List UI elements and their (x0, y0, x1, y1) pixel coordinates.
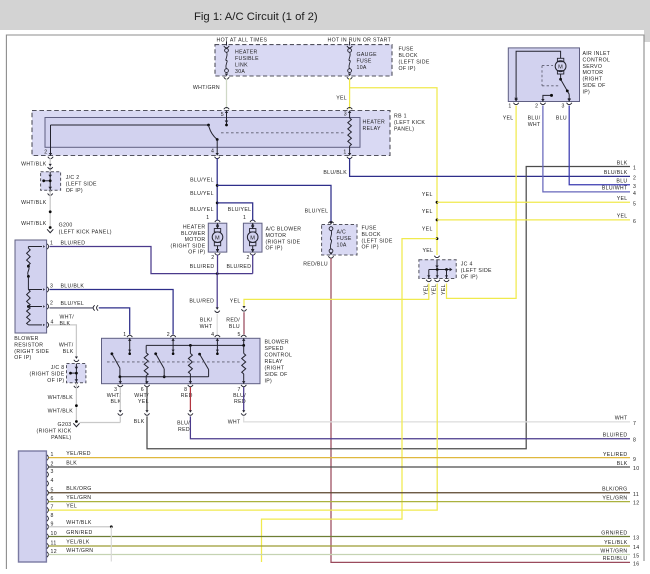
wire BLU (servo pin 3 to connector row 3) (569, 106, 630, 185)
svg-text:WHT/GRN: WHT/GRN (600, 548, 627, 554)
speed relay pin 5 entry to coil bus (242, 338, 245, 341)
svg-text:(LEFT SIDE: (LEFT SIDE (461, 268, 492, 274)
svg-text:BLU/RED: BLU/RED (603, 433, 628, 439)
speed relay pin 1 stub (128, 338, 131, 341)
body connector pin 4 stub (47, 481, 49, 486)
speed relay coil L2 (189, 345, 191, 353)
node WHT/BLK (body connector pin 9 splice) (110, 525, 113, 528)
speed relay switch S1 (111, 352, 114, 355)
wire WHT/BLK (resistor pin 4 to J/C 8) (50, 325, 77, 357)
blower speed control relay U2 box (102, 338, 261, 383)
svg-text:BLU/: BLU/ (528, 116, 541, 122)
body connector pin 2 wire BLK (47, 464, 49, 469)
node BLU/YEL 2 (216, 202, 219, 205)
heater relay pin 2 internal wire (50, 125, 52, 156)
svg-text:YEL/GRN: YEL/GRN (602, 495, 627, 501)
svg-text:WHT/BLK: WHT/BLK (48, 409, 74, 415)
svg-text:WHT/GRN: WHT/GRN (193, 85, 220, 91)
svg-text:11: 11 (633, 492, 639, 498)
svg-text:YEL/GRN: YEL/GRN (66, 495, 91, 501)
svg-text:SPEED: SPEED (265, 346, 284, 352)
junction connector J/C 2 (41, 172, 61, 191)
svg-text:2: 2 (633, 175, 636, 181)
wire WHT/BLK (J/C 2 to ground G200) (49, 190, 52, 192)
svg-text:HEATER: HEATER (235, 50, 258, 56)
svg-text:4: 4 (51, 478, 54, 484)
wire WHT/BLK (splice dropping off page) (110, 527, 112, 562)
svg-text:WHT: WHT (228, 420, 241, 426)
svg-text:(RIGHT SIDE: (RIGHT SIDE (30, 371, 65, 377)
speed relay bottom pins 3 6 8 7 (119, 381, 122, 384)
svg-text:RED: RED (178, 427, 190, 433)
svg-text:RESISTOR: RESISTOR (14, 342, 43, 348)
wire RED to BLU/RED (speed relay pin 8 to connector row 8) (189, 387, 191, 411)
nodes on YEL riser (436, 201, 439, 204)
wire BLU/YEL branch to A/C blower motor (217, 203, 253, 221)
svg-text:BLU/YEL: BLU/YEL (228, 207, 252, 213)
speed relay switch S3 (198, 353, 201, 356)
svg-text:15: 15 (633, 554, 639, 560)
svg-text:(RIGHT: (RIGHT (265, 366, 285, 372)
svg-text:12: 12 (633, 501, 639, 507)
body connector pin 8 stub (47, 516, 49, 521)
servo mechanical link dashes (542, 65, 553, 67)
wire BLK (speed relay pin 6 to connector row 1) (146, 387, 148, 411)
fuse F1 (GAUGE FUSE 10A) (349, 42, 351, 46)
svg-text:7: 7 (51, 505, 54, 511)
wire WHT/GRN (fusible link to heater relay pin 5) (226, 79, 228, 110)
svg-text:1: 1 (123, 332, 126, 338)
svg-text:3: 3 (633, 184, 636, 190)
svg-text:AIR INLET: AIR INLET (583, 51, 611, 57)
svg-text:2: 2 (246, 255, 249, 261)
wire RED/BLU (A/C fuse to connector row 16) (331, 258, 630, 562)
svg-text:WHT/GRN: WHT/GRN (66, 548, 93, 554)
svg-text:1: 1 (50, 240, 53, 246)
wire BLU/YEL (heater relay pin 4 down to blower motors) (216, 158, 218, 221)
body connector pin 12 wire WHT/GRN (47, 552, 49, 557)
node BLU/YEL 1 (216, 184, 219, 187)
svg-text:RELAY: RELAY (265, 359, 283, 365)
svg-text:3: 3 (51, 469, 54, 475)
wire WHT/BLK (speed relay pin 3 to ground line) (119, 387, 121, 411)
relay block RB 1 (dashed box) (32, 111, 390, 156)
svg-text:WHT: WHT (615, 416, 628, 422)
svg-text:YEL: YEL (336, 96, 347, 102)
svg-text:SIDE OF: SIDE OF (265, 372, 288, 378)
svg-text:GRN/RED: GRN/RED (66, 530, 92, 536)
svg-text:YEL: YEL (422, 209, 433, 215)
svg-text:BLK: BLK (134, 419, 145, 425)
svg-text:(LEFT KICK PANEL): (LEFT KICK PANEL) (59, 230, 112, 236)
svg-text:BLU: BLU (556, 116, 567, 122)
speed relay coil L1 (145, 345, 147, 352)
speed relay switch S2 (154, 352, 157, 355)
svg-text:A/C BLOWER: A/C BLOWER (266, 227, 302, 233)
svg-text:5: 5 (237, 332, 240, 338)
svg-text:10A: 10A (337, 242, 347, 248)
servo pins 1 2 3 (514, 99, 517, 102)
wire BLU/RED to WHT (speed relay pin 7 to connector row 7) (243, 387, 245, 411)
wire BLU/WHT (servo pin 2 to connector row 4) (543, 106, 630, 192)
svg-text:SERVO: SERVO (583, 64, 603, 70)
svg-text:YEL: YEL (423, 284, 429, 295)
svg-text:1: 1 (343, 150, 346, 156)
svg-text:FUSIBLE: FUSIBLE (235, 56, 259, 62)
svg-text:4: 4 (211, 149, 214, 155)
svg-text:BLU/YEL: BLU/YEL (305, 209, 329, 215)
wire BLU/RED (A/C blower motor pin 2 drop) (252, 255, 254, 274)
svg-text:WHT/: WHT/ (59, 343, 74, 349)
wire YEL (gauge fuse to heater relay pin 3 and junction riser) (349, 79, 351, 110)
svg-text:1: 1 (206, 215, 209, 221)
heater relay coil (349, 111, 351, 119)
blower resistor element (27, 247, 29, 249)
body connector pin 7 wire YEL (47, 507, 49, 512)
svg-text:RED/BLU: RED/BLU (603, 556, 628, 562)
svg-text:BLOCK: BLOCK (362, 232, 381, 238)
speed relay pin 2 stub (171, 338, 174, 341)
svg-text:10: 10 (633, 466, 639, 472)
fusible link FL (HEATER FUSIBLE LINK 30A) (226, 42, 228, 46)
svg-text:YEL: YEL (230, 299, 241, 305)
svg-text:6: 6 (633, 219, 636, 225)
blower resistor taps (28, 246, 42, 248)
svg-text:M: M (250, 235, 255, 241)
svg-text:2: 2 (211, 255, 214, 261)
wire BLU/RED (resistor pin 1 to blower motors bus) (50, 247, 253, 274)
wire BLU/BLK (resistor pin 3 to speed relay pin 2) (50, 290, 174, 335)
heater relay pin 5 entry (225, 111, 228, 114)
svg-text:(LEFT KICK: (LEFT KICK (394, 120, 425, 126)
svg-text:SIDE OF: SIDE OF (583, 83, 606, 89)
wire BLU/RED to BLK/WHT (bus to speed relay pin 4 via connector) (216, 274, 218, 308)
svg-text:BLK/ORG: BLK/ORG (602, 487, 627, 493)
svg-text:WHT: WHT (200, 324, 213, 330)
svg-text:5: 5 (221, 112, 224, 118)
svg-text:BLU/RED: BLU/RED (189, 299, 214, 305)
blower resistor R1 box (15, 240, 47, 333)
ground G203 (75, 420, 78, 423)
body connector pin 11 wire YEL/BLK (47, 543, 49, 548)
svg-text:YEL/RED: YEL/RED (66, 451, 91, 457)
svg-text:(RIGHT SIDE: (RIGHT SIDE (14, 349, 49, 355)
svg-text:BLU/BLK: BLU/BLK (323, 170, 347, 176)
svg-text:A/C: A/C (337, 230, 347, 236)
svg-text:30A: 30A (235, 69, 245, 75)
svg-text:BLK: BLK (66, 460, 77, 466)
svg-text:LINK: LINK (235, 63, 248, 69)
svg-text:YEL: YEL (423, 248, 434, 254)
splice node on WHT/BLK (49, 210, 52, 213)
svg-text:BLU/: BLU/ (177, 421, 190, 427)
svg-text:16: 16 (633, 561, 639, 567)
svg-text:7: 7 (633, 421, 636, 427)
svg-text:OF IP): OF IP) (461, 274, 478, 280)
svg-text:JC 4: JC 4 (461, 262, 473, 268)
svg-text:3: 3 (344, 112, 347, 118)
svg-text:4: 4 (633, 191, 636, 197)
svg-text:BLK: BLK (60, 321, 71, 327)
svg-text:BLK: BLK (617, 461, 628, 467)
svg-text:BLOWER: BLOWER (14, 336, 38, 342)
svg-text:BLU/WHT: BLU/WHT (602, 186, 628, 192)
wire YEL (node via left drop to bottom left riser) (262, 239, 438, 562)
wire WHT/BLK (heater relay pin 2 to J/C 2) (49, 158, 51, 171)
svg-text:RED/BLU: RED/BLU (303, 262, 328, 268)
svg-text:14: 14 (633, 545, 639, 551)
heater relay U1 (inner box) (45, 118, 360, 148)
svg-text:GRN/RED: GRN/RED (601, 530, 627, 536)
svg-text:13: 13 (633, 536, 639, 542)
svg-text:BLK: BLK (617, 160, 628, 166)
svg-text:GAUGE: GAUGE (357, 52, 378, 58)
svg-text:YEL/BLK: YEL/BLK (66, 539, 90, 545)
wire BLU/YEL (resistor pin 2 via connector to speed relay pin 1) (50, 307, 94, 309)
air inlet control servo motor M3 box (508, 48, 579, 102)
svg-text:WHT/BLK: WHT/BLK (21, 200, 47, 206)
svg-text:1: 1 (508, 103, 511, 109)
svg-text:OF IP): OF IP) (266, 246, 283, 252)
svg-text:CONTROL: CONTROL (583, 57, 611, 63)
svg-text:BLOWER: BLOWER (265, 340, 289, 346)
svg-text:(LEFT SIDE: (LEFT SIDE (66, 182, 97, 188)
svg-text:BLK/ORG: BLK/ORG (66, 486, 91, 492)
svg-text:CONTROL: CONTROL (265, 353, 293, 359)
svg-text:RELAY: RELAY (363, 126, 381, 132)
svg-text:FUSE: FUSE (357, 59, 372, 65)
wire YEL (node to connector row 6) (437, 219, 630, 221)
speed relay pin 4 stub (216, 338, 219, 341)
svg-text:1: 1 (633, 166, 636, 172)
wire WHT/BLK (J/C 8 to ground G203) (75, 383, 78, 385)
junction connector J/C 8 (67, 364, 86, 383)
body connector pin 10 wire GRN/RED (47, 534, 49, 539)
svg-text:M: M (215, 235, 220, 241)
body connector C1 box (19, 451, 47, 562)
svg-text:WHT/BLK: WHT/BLK (48, 395, 74, 401)
wire WHT/BLK (ground line G203 to speed relay pin 3) (80, 422, 121, 424)
svg-text:HOT IN RUN OR START: HOT IN RUN OR START (328, 38, 392, 44)
svg-text:WHT/: WHT/ (60, 314, 75, 320)
svg-text:BLU/YEL: BLU/YEL (190, 191, 214, 197)
fuse F2 (A/C FUSE 10A) block (329, 222, 333, 225)
splice node on WHT/BLK to G203 (75, 404, 78, 407)
svg-text:WHT/BLK: WHT/BLK (66, 520, 92, 526)
wire YEL to RED/BLU (J/C 4 to speed relay pin 5) (244, 284, 429, 307)
wire BLU/RED (heater blower motor pin 2 drop) (217, 255, 219, 274)
svg-text:3: 3 (561, 103, 564, 109)
svg-text:2: 2 (167, 332, 170, 338)
svg-text:YEL: YEL (617, 196, 628, 202)
A/C blower motor M2 (243, 223, 262, 252)
svg-text:BLU/RED: BLU/RED (61, 240, 86, 246)
servo switch arm (motor to pin 3) (560, 74, 562, 79)
svg-text:BLK/: BLK/ (200, 318, 213, 324)
svg-text:BLU/YEL: BLU/YEL (61, 301, 85, 307)
svg-text:(RIGHT SIDE: (RIGHT SIDE (171, 243, 206, 249)
fuse block (top) (215, 45, 392, 76)
speed relay coil L3 (243, 345, 245, 353)
svg-text:OF IP): OF IP) (362, 245, 379, 251)
svg-text:(LEFT SIDE: (LEFT SIDE (362, 238, 393, 244)
svg-text:(LEFT SIDE: (LEFT SIDE (399, 60, 430, 66)
svg-text:BLOWER: BLOWER (181, 231, 205, 237)
svg-text:(RIGHT: (RIGHT (583, 77, 603, 83)
svg-text:YEL: YEL (503, 116, 514, 122)
svg-text:BLU/BLK: BLU/BLK (604, 170, 628, 176)
svg-text:BLU/RED: BLU/RED (227, 264, 252, 270)
wire YEL (JC 4 middle output to body connector pin 7 row) (49, 284, 438, 511)
svg-text:4: 4 (211, 332, 214, 338)
svg-text:2: 2 (50, 300, 53, 306)
svg-text:HEATER: HEATER (363, 120, 386, 126)
svg-text:IP): IP) (583, 89, 591, 95)
svg-text:HOT AT ALL TIMES: HOT AT ALL TIMES (217, 38, 268, 44)
wire YEL (node to connector row 5) (437, 201, 630, 203)
svg-text:Fig 1: A/C Circuit (1 of 2): Fig 1: A/C Circuit (1 of 2) (194, 11, 318, 23)
svg-text:1: 1 (243, 215, 246, 221)
svg-text:HEATER: HEATER (183, 225, 206, 231)
svg-text:BLOCK: BLOCK (399, 53, 418, 59)
svg-text:IP): IP) (265, 379, 273, 385)
body connector pin 3 stub (47, 472, 49, 477)
heater relay switch contact wire (51, 124, 209, 126)
svg-text:5: 5 (633, 201, 636, 207)
svg-text:M: M (558, 64, 563, 70)
svg-text:2: 2 (44, 150, 47, 156)
heater blower motor M1 (208, 223, 227, 252)
svg-text:YEL/BLK: YEL/BLK (604, 540, 628, 546)
body connector pin 6 wire YEL/GRN (47, 499, 49, 504)
svg-text:BLU: BLU (229, 324, 240, 330)
svg-text:OF IP): OF IP) (66, 188, 83, 194)
ground G200 (49, 226, 52, 229)
body connector pin 5 wire BLK/ORG (47, 490, 49, 495)
servo wiper contact (pin 2) (543, 95, 551, 101)
svg-text:OF IP): OF IP) (188, 250, 205, 256)
svg-text:OF IP): OF IP) (399, 66, 416, 72)
heater relay bottom pins 2 4 1 (49, 153, 52, 156)
svg-text:WHT: WHT (528, 122, 541, 128)
svg-text:8: 8 (633, 438, 636, 444)
svg-text:YEL: YEL (617, 214, 628, 220)
svg-text:G200: G200 (59, 223, 73, 229)
node on BLU/RED bus at heater blower motor (216, 272, 219, 275)
header bar (0, 0, 650, 30)
svg-text:J/C 8: J/C 8 (51, 365, 65, 371)
svg-text:J/C 2: J/C 2 (66, 175, 80, 181)
servo motor symbol (516, 51, 561, 98)
heater relay mechanical link (221, 132, 344, 134)
speed relay mechanical link (107, 361, 242, 363)
heater relay switch arm (209, 125, 218, 140)
speed relay coil bus (146, 344, 244, 346)
svg-text:FUSE: FUSE (362, 226, 377, 232)
svg-text:10A: 10A (357, 65, 367, 71)
svg-text:RB 1: RB 1 (394, 114, 407, 120)
svg-text:YEL: YEL (422, 192, 433, 198)
svg-text:9: 9 (633, 457, 636, 463)
svg-text:OF IP): OF IP) (14, 355, 31, 361)
svg-text:2: 2 (535, 103, 538, 109)
svg-text:WHT/: WHT/ (107, 393, 122, 399)
svg-text:MOTOR: MOTOR (583, 70, 604, 76)
svg-text:BLU/BLK: BLU/BLK (61, 283, 85, 289)
svg-text:(RIGHT SIDE: (RIGHT SIDE (266, 239, 301, 245)
wire BLU/YEL branch to A/C fuse (217, 185, 331, 222)
speed relay bottom bus to pin 3 (120, 376, 209, 378)
svg-text:BLU/YEL: BLU/YEL (190, 207, 214, 213)
svg-text:WHT/BLK: WHT/BLK (21, 221, 47, 227)
svg-text:MOTOR: MOTOR (185, 237, 206, 243)
svg-text:BLK: BLK (63, 349, 74, 355)
svg-text:RED/: RED/ (226, 318, 240, 324)
svg-text:YEL: YEL (422, 227, 433, 233)
svg-text:MOTOR: MOTOR (266, 233, 287, 239)
wire YEL (JC 4 right output to air inlet servo pin 1) (447, 106, 517, 299)
svg-text:FUSE: FUSE (399, 47, 414, 53)
svg-text:BLU/YEL: BLU/YEL (190, 178, 214, 184)
wire BLU/BLK (heater relay pin 1 to connector row 2) (350, 158, 630, 176)
svg-text:8: 8 (51, 513, 54, 519)
junction connector JC 4 (434, 256, 439, 258)
svg-text:BLU: BLU (616, 179, 627, 185)
body connector pin 9 wire WHT/BLK (47, 524, 49, 529)
svg-text:PANEL): PANEL) (51, 435, 71, 441)
blower resistor pin arcs and numbers (47, 244, 49, 249)
svg-text:PANEL): PANEL) (394, 127, 414, 133)
svg-text:YEL: YEL (66, 504, 77, 510)
svg-text:(RIGHT KICK: (RIGHT KICK (37, 428, 72, 434)
svg-text:FUSE: FUSE (337, 236, 352, 242)
svg-text:3: 3 (50, 283, 53, 289)
svg-text:G203: G203 (57, 422, 71, 428)
svg-text:BLU/RED: BLU/RED (190, 264, 215, 270)
svg-text:YEL/RED: YEL/RED (603, 452, 628, 458)
svg-text:WHT/BLK: WHT/BLK (21, 162, 47, 168)
svg-text:OF IP): OF IP) (47, 378, 64, 384)
body connector pin 1 wire YEL/RED (47, 455, 49, 460)
